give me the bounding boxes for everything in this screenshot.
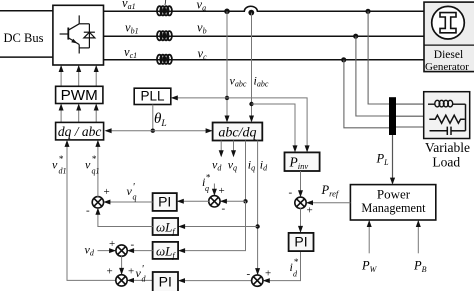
PWM gate drive arrows to inverter bbox=[61, 66, 96, 86]
summing junction vq bbox=[92, 197, 103, 208]
PI controller q axis bbox=[153, 193, 177, 211]
svg-text:Generator: Generator bbox=[425, 61, 469, 73]
svg-text:+: + bbox=[307, 205, 313, 217]
omega Lf box upper bbox=[153, 218, 179, 235]
node load tap phase a bbox=[365, 9, 370, 14]
abc/dq box bbox=[213, 123, 263, 141]
wire load tap b down bbox=[356, 36, 390, 116]
svg-text:d1: d1 bbox=[59, 167, 67, 176]
wire bar to load row2 bbox=[394, 115, 424, 117]
wire DC bus negative rail bbox=[0, 56, 53, 58]
svg-text:PI: PI bbox=[294, 234, 307, 250]
label id star bbox=[290, 257, 299, 279]
svg-text:PI: PI bbox=[158, 194, 171, 210]
svg-text:Diesel: Diesel bbox=[434, 49, 463, 61]
svg-text:-: - bbox=[222, 203, 226, 215]
wire power summer to PI3 bbox=[300, 208, 302, 231]
wire vabc down to abc/dq bbox=[226, 11, 228, 122]
wire iabc to Pinv bbox=[252, 104, 296, 151]
summing junction iq bbox=[209, 196, 220, 207]
inductor Lf phase c bbox=[157, 55, 172, 64]
wire phase b bbox=[104, 35, 425, 37]
wire vd stub bbox=[98, 250, 115, 252]
inductor Lf phase b bbox=[157, 31, 172, 40]
svg-text:Management: Management bbox=[361, 201, 426, 215]
svg-text:q: q bbox=[133, 193, 137, 202]
wire vd1 star up bbox=[67, 141, 122, 280]
svg-text:abc/dq: abc/dq bbox=[218, 125, 256, 140]
diesel generator box bbox=[424, 2, 474, 72]
resistor in load bbox=[429, 115, 465, 123]
generator symbol circle bbox=[432, 6, 465, 39]
wires dq/abc to PWM bbox=[61, 105, 96, 123]
node vabc branch bbox=[225, 96, 229, 100]
wire Pref from power management bbox=[307, 202, 350, 204]
node voltage tap on phase a bbox=[224, 9, 230, 15]
abc/dq output iq bbox=[245, 141, 247, 202]
capacitor in load bbox=[430, 104, 466, 135]
wire theta to abc/dq bbox=[153, 130, 212, 132]
wire id summer to PI2 bbox=[179, 280, 252, 282]
svg-text:v: v bbox=[52, 158, 58, 172]
svg-text:*: * bbox=[294, 257, 299, 267]
abc/dq output id bbox=[257, 141, 259, 275]
label vq1 star bbox=[85, 154, 100, 176]
svg-text:q1: q1 bbox=[92, 167, 100, 176]
wire vabc to PLL bbox=[172, 97, 227, 99]
svg-text:+: + bbox=[128, 266, 134, 278]
wire iabc down to abc/dq bbox=[251, 13, 253, 122]
dq/abc box bbox=[56, 122, 104, 139]
svg-text:+: + bbox=[104, 186, 110, 198]
svg-text:*: * bbox=[206, 173, 211, 183]
wire id into summer arrowhead bbox=[255, 268, 260, 275]
wire id to omega Lf upper bbox=[179, 226, 257, 228]
abc/dq output vd bbox=[220, 141, 222, 157]
wire load tap c down bbox=[344, 60, 390, 128]
wire phase c bbox=[104, 59, 425, 61]
svg-text:+: + bbox=[219, 185, 225, 197]
wire PW input bbox=[368, 221, 370, 253]
wire vabc to Pinv bbox=[227, 98, 307, 151]
wire Pinv to power summer bbox=[300, 171, 302, 196]
svg-text:*: * bbox=[92, 154, 97, 164]
abc/dq output vq bbox=[233, 141, 235, 157]
wire bar to load row3 bbox=[394, 126, 424, 128]
summing junction id bbox=[252, 275, 263, 286]
wire PI3 to id summer bbox=[264, 251, 301, 281]
node iabc branch bbox=[249, 102, 253, 106]
wire iq to omega Lf lower bbox=[179, 201, 245, 250]
svg-text:Load: Load bbox=[432, 155, 460, 170]
wire omega Lf lower to vd summer bbox=[128, 250, 152, 252]
wire PI1 to vq summer bbox=[105, 201, 153, 203]
svg-text:PI: PI bbox=[159, 274, 172, 290]
inductor Lf phase a bbox=[157, 6, 172, 15]
svg-text:PWM: PWM bbox=[61, 87, 98, 104]
svg-text:+: + bbox=[107, 266, 113, 278]
wire iq summer to PI1 bbox=[178, 200, 209, 202]
svg-text:PLL: PLL bbox=[140, 89, 165, 104]
PWM box bbox=[56, 86, 103, 103]
svg-text:DC Bus: DC Bus bbox=[4, 31, 44, 45]
omega Lf box lower bbox=[153, 242, 179, 259]
wire phase a from inverter with crossover hop bbox=[104, 6, 425, 11]
label vd1 star bbox=[52, 154, 67, 176]
PLL box bbox=[134, 88, 171, 104]
svg-text:dq / abc: dq / abc bbox=[58, 124, 102, 139]
node theta junction bbox=[151, 129, 155, 133]
svg-text:-: - bbox=[289, 187, 293, 199]
wire theta to dq/abc bbox=[106, 130, 153, 132]
wire bar to load row1 bbox=[394, 103, 424, 105]
power management box bbox=[350, 185, 435, 220]
node load tap phase b bbox=[353, 34, 358, 39]
wire PLL output theta bbox=[152, 105, 154, 131]
summing junction vd1 bbox=[116, 275, 127, 286]
svg-text:-: - bbox=[247, 268, 251, 280]
svg-text:-: - bbox=[131, 239, 135, 251]
wire iq into summer bbox=[221, 200, 245, 202]
summing junction power bbox=[295, 197, 306, 208]
PI controller power bbox=[289, 233, 314, 251]
wire vq1 star output up bbox=[97, 141, 99, 197]
svg-text:v: v bbox=[85, 158, 91, 172]
wire PL to power management bbox=[392, 135, 394, 183]
wire load tap a down bbox=[368, 11, 390, 104]
variable load box bbox=[424, 92, 470, 139]
svg-text:q: q bbox=[205, 184, 209, 193]
svg-text:+: + bbox=[265, 268, 271, 280]
node iq branch bbox=[243, 199, 247, 203]
inductor in load bbox=[428, 100, 466, 107]
wire PB input bbox=[417, 221, 419, 253]
svg-text:+: + bbox=[109, 238, 115, 250]
summing junction vd bbox=[116, 245, 127, 256]
label vd prime bbox=[136, 264, 147, 284]
svg-text:va1: va1 bbox=[122, 0, 136, 11]
node id branch to omega Lf bbox=[255, 224, 259, 228]
inverter box bbox=[53, 5, 104, 65]
label iq star bbox=[202, 173, 211, 194]
wire omega Lf upper to vq summer bbox=[98, 209, 153, 227]
node load tap phase c bbox=[341, 57, 346, 62]
node current tap under hop bbox=[248, 10, 254, 16]
wire PI2 to vd1 summer bbox=[128, 279, 153, 281]
PI controller d axis bbox=[153, 272, 178, 291]
wire vd summer down bbox=[121, 256, 123, 274]
bus bar measurement point bbox=[389, 97, 396, 135]
diode D1 antiparallel bbox=[84, 32, 95, 38]
label vq prime bbox=[127, 182, 137, 202]
wire DC bus positive rail bbox=[0, 10, 53, 12]
transistor Q1 IGBT symbol bbox=[60, 15, 90, 53]
Pinv box bbox=[285, 152, 320, 171]
wire iq star reference bbox=[213, 184, 215, 195]
svg-text:Power: Power bbox=[377, 186, 411, 201]
svg-text:Variable: Variable bbox=[425, 140, 470, 155]
svg-text:-: - bbox=[86, 205, 90, 217]
svg-text:*: * bbox=[59, 154, 64, 164]
